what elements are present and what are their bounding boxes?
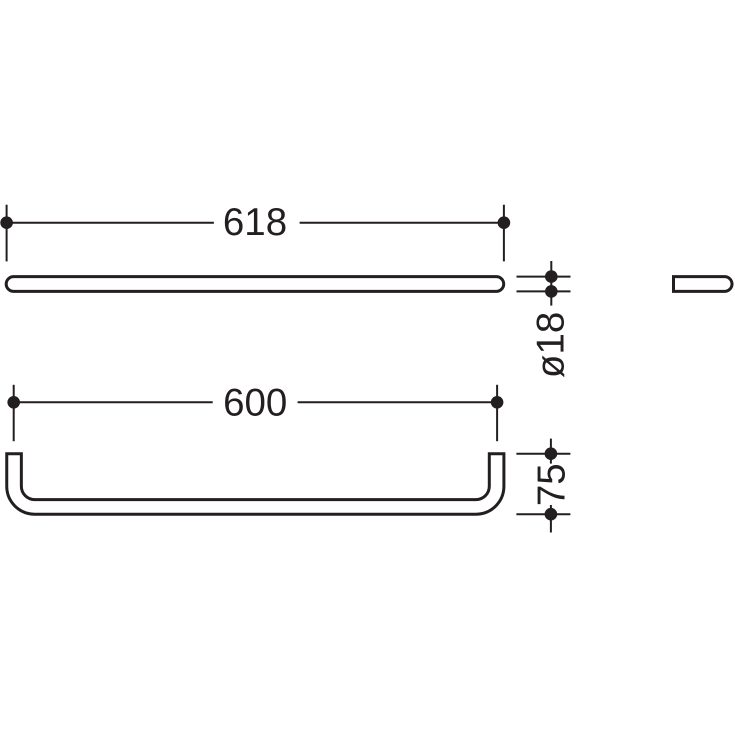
svg-text:ø18: ø18 [530,312,573,378]
svg-text:75: 75 [530,463,573,506]
svg-text:618: 618 [223,201,287,244]
svg-text:600: 600 [223,382,287,425]
